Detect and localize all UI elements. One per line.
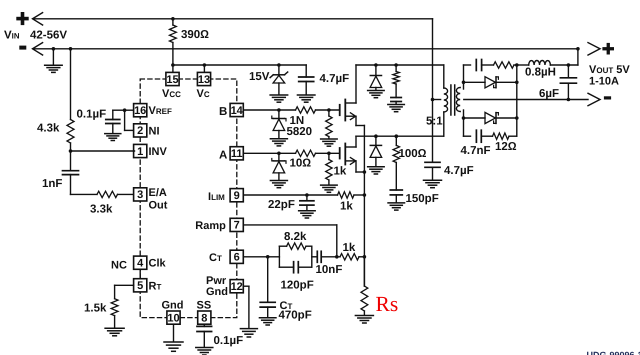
svg-text:Gnd: Gnd: [162, 300, 184, 312]
svg-text:0.8µH: 0.8µH: [525, 67, 556, 79]
svg-text:470pF: 470pF: [279, 309, 312, 321]
resistor gate pulldown A 1k: [328, 153, 330, 159]
wire secondary bottom row: [462, 116, 466, 120]
svg-text:14: 14: [231, 105, 244, 117]
svg-text:7: 7: [234, 220, 240, 232]
ground below 22pF: [299, 210, 316, 212]
ground below VREF 0.1uF: [105, 133, 121, 135]
ground below Vcc 4.7uF: [297, 94, 315, 96]
schottky rectifier bottom: [495, 113, 497, 124]
capacitor 120pF parallel: [279, 266, 293, 268]
wire pin4-pin5 link: [139, 269, 141, 278]
svg-text:B: B: [219, 106, 227, 118]
svg-text:1.5k: 1.5k: [84, 303, 107, 315]
wire VIN+ top rail: [33, 13, 43, 25]
svg-text:4.7µF: 4.7µF: [444, 165, 474, 177]
ground below gate pulldown B: [321, 138, 338, 140]
resistor series gate A 10ohm: [296, 150, 316, 156]
junction on VIN- rail at ground: [52, 47, 56, 51]
svg-text:SS: SS: [197, 300, 212, 312]
mosfet Q1 top (B): [339, 105, 341, 115]
ground below clamp RC: [388, 104, 405, 106]
wire rectifier output bus: [516, 65, 518, 136]
ground at VIN- rail: [52, 49, 54, 65]
pin 2 NI: [134, 124, 147, 137]
resistor 1k on ILIM: [338, 192, 355, 198]
wire riser to VOUT+: [577, 49, 579, 65]
svg-text:13: 13: [198, 74, 210, 86]
svg-text:CT: CT: [209, 252, 222, 264]
svg-text:6µF: 6µF: [539, 88, 559, 100]
svg-text:9: 9: [234, 190, 240, 202]
wire pin15 stub: [172, 65, 174, 72]
capacitor 150pF snubber: [390, 189, 402, 191]
snubber RC top: [463, 65, 465, 82]
wire output B row: [243, 109, 295, 111]
capacitor 0.1uF soft start: [203, 324, 205, 326]
pin 13 Vc: [197, 72, 210, 85]
svg-text:10: 10: [167, 312, 179, 324]
svg-text:12: 12: [231, 281, 243, 293]
zener diode 15V on Vcc: [277, 63, 281, 67]
schottky rectifier top: [495, 77, 497, 88]
svg-text:8: 8: [201, 312, 207, 324]
resistor series gate B: [296, 107, 316, 113]
svg-text:1-10A: 1-10A: [589, 76, 619, 88]
capacitor 0.1uF on VREF: [112, 110, 114, 119]
wire output A row: [243, 152, 295, 154]
svg-text:4.7µF: 4.7µF: [320, 73, 350, 85]
svg-text:1: 1: [137, 146, 143, 158]
resistor 390ohm from VIN+ to Vcc: [171, 17, 175, 21]
svg-text:10Ω: 10Ω: [290, 158, 312, 170]
svg-text:VOUT 5V: VOUT 5V: [589, 64, 630, 76]
svg-text:3.3k: 3.3k: [90, 204, 113, 216]
svg-text:6: 6: [234, 252, 240, 264]
ground below 1N5820 B: [270, 138, 287, 140]
svg-text:NI: NI: [149, 126, 160, 138]
svg-text:0.1µF: 0.1µF: [214, 335, 244, 347]
wire Ramp to CT node: [243, 224, 336, 226]
ground below 15V zener: [270, 94, 288, 96]
resistor 1.5k on RT: [111, 299, 118, 316]
pin 3 E/A Out: [134, 188, 147, 201]
wire RT to 1.5k: [115, 284, 134, 286]
ground below clamp diode: [368, 90, 385, 92]
schottky diode on A: [278, 153, 280, 161]
ground below pin12: [240, 328, 257, 330]
svg-text:100Ω: 100Ω: [399, 148, 427, 160]
svg-text:5: 5: [137, 280, 143, 292]
ground below bottom clamp diode: [368, 166, 385, 168]
secondary center tap wire: [464, 99, 588, 101]
svg-text:Out: Out: [149, 200, 168, 212]
resistor Rs current sense: [363, 257, 365, 286]
svg-text:42-56V: 42-56V: [30, 30, 67, 42]
resistor 4.3k from VIN- to INV: [69, 47, 73, 51]
svg-text:Gnd: Gnd: [206, 286, 228, 298]
transformer T1 secondary: [463, 82, 465, 89]
svg-text:15V: 15V: [249, 71, 270, 83]
pin 4 Clk: [134, 256, 147, 269]
svg-text:RT: RT: [149, 280, 162, 292]
ground below primary bypass: [424, 179, 442, 181]
wire pin13 stub: [203, 65, 205, 72]
svg-text:0.1µF: 0.1µF: [77, 109, 107, 121]
capacitor 22pF on ILIM: [306, 195, 308, 201]
svg-text:INV: INV: [149, 146, 168, 158]
svg-text:NC: NC: [111, 260, 127, 272]
node VIN+ label: [16, 17, 28, 21]
resistor clamp RC: [395, 65, 397, 72]
ground below pin 10: [173, 324, 175, 341]
wire pin12 to ground: [243, 285, 249, 287]
svg-text:11: 11: [231, 148, 243, 160]
svg-text:1k: 1k: [343, 242, 356, 254]
schottky diode 1N5820 on B: [278, 110, 280, 119]
wire drain line bottom: [356, 135, 444, 137]
transformer center tap wire: [431, 98, 435, 102]
transformer T1 primary: [443, 65, 445, 88]
pin 1 INV: [134, 144, 147, 157]
svg-text:2: 2: [137, 125, 143, 137]
pin 16 VREF: [134, 104, 147, 117]
svg-text:4.7nF: 4.7nF: [461, 145, 491, 157]
inductor 0.8uH: [517, 64, 529, 66]
diode clamp top: [375, 65, 377, 76]
ground below diode A: [270, 180, 287, 182]
node VIN- label: [19, 46, 26, 50]
svg-text:3: 3: [137, 189, 143, 201]
svg-text:390Ω: 390Ω: [181, 29, 209, 41]
wire ILIM row: [243, 194, 337, 196]
svg-text:Rs: Rs: [376, 292, 399, 316]
transformer core: [450, 85, 452, 115]
resistor 8.2k parallel: [278, 246, 280, 267]
ground below 1.5k: [105, 327, 124, 329]
svg-text:E/A: E/A: [149, 187, 167, 199]
wire common source vertical: [363, 126, 365, 287]
pin 15 Vcc: [166, 72, 179, 85]
resistor gate pulldown B: [328, 110, 330, 116]
svg-text:5820: 5820: [287, 126, 313, 138]
resistor 100ohm snubber: [395, 136, 397, 145]
wire secondary top row: [462, 81, 466, 85]
svg-text:4.3k: 4.3k: [37, 123, 60, 135]
svg-text:4: 4: [137, 258, 144, 270]
ground below 470pF: [259, 317, 276, 319]
svg-text:VREF: VREF: [149, 105, 172, 117]
svg-text:1k: 1k: [334, 166, 347, 178]
capacitor CT 470pF: [267, 257, 269, 303]
ground below Rs: [355, 315, 373, 317]
svg-text:5:1: 5:1: [426, 116, 443, 128]
wire VREF network: [125, 109, 135, 111]
wire center-tap feed vertical from VIN+ rail: [432, 19, 434, 100]
resistor 1k to Rs node: [337, 256, 340, 258]
svg-text:15: 15: [166, 74, 178, 86]
svg-text:A: A: [219, 149, 227, 161]
svg-text:150pF: 150pF: [406, 193, 439, 205]
IC UC3825 dashed outline: [140, 79, 237, 318]
ground below SS cap: [196, 347, 213, 349]
resistor 3.3k to E/A out: [97, 191, 118, 197]
pin 5 RT: [134, 279, 147, 292]
capacitor 10nF: [312, 256, 318, 258]
capacitor 4.7uF on Vcc: [305, 65, 307, 77]
svg-text:16: 16: [134, 105, 146, 117]
capacitor 1nF INV to E/A out: [70, 151, 72, 171]
ground below 150pF: [388, 202, 405, 204]
svg-text:1k: 1k: [340, 201, 353, 213]
svg-text:Clk: Clk: [149, 258, 167, 270]
svg-text:VC: VC: [197, 88, 210, 100]
node VOUT- arrow: [588, 93, 600, 105]
wire VIN- / VOUT+ rail: [33, 43, 43, 55]
wire INV to divider: [71, 150, 135, 152]
svg-text:1nF: 1nF: [42, 178, 62, 190]
svg-text:VIN: VIN: [4, 30, 20, 42]
capacitor 6uF output: [567, 65, 569, 78]
diode clamp bottom: [375, 136, 377, 145]
svg-text:ILIM: ILIM: [208, 191, 225, 203]
ground below gate pulldown A: [321, 184, 338, 186]
svg-text:120pF: 120pF: [281, 280, 314, 292]
snubber RC bottom 4.7nF 12ohm: [463, 118, 465, 136]
capacitor 4.7uF primary bypass: [432, 100, 434, 163]
svg-text:12Ω: 12Ω: [495, 141, 517, 153]
svg-text:UDG-99096-1: UDG-99096-1: [587, 350, 640, 355]
svg-text:10nF: 10nF: [316, 264, 343, 276]
node VOUT+ arrow: [588, 43, 600, 55]
svg-text:8.2k: 8.2k: [284, 231, 307, 243]
svg-text:VCC: VCC: [162, 88, 181, 100]
wire Vcc line: [173, 64, 306, 66]
capacitor clamp RC: [391, 97, 401, 99]
wire to 3.3k: [71, 193, 98, 195]
wire CT row: [243, 256, 279, 258]
wire drain clamp line top: [356, 64, 444, 66]
svg-text:Ramp: Ramp: [195, 220, 226, 232]
mosfet Q2 bottom (A): [339, 148, 341, 159]
svg-text:22pF: 22pF: [268, 199, 295, 211]
